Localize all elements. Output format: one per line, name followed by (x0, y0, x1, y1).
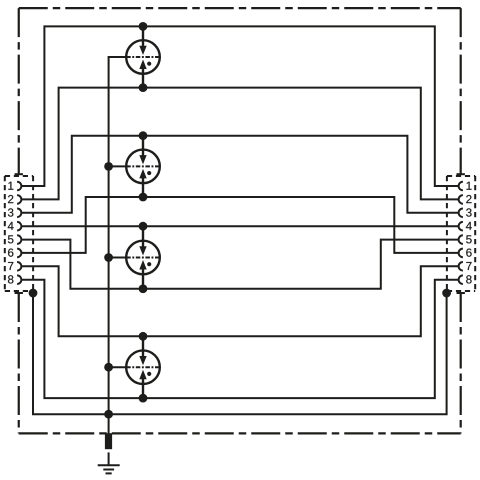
earth feed-through terminal (105, 433, 112, 449)
arrester F2 (gas discharge tube + suppressor) (126, 150, 160, 184)
J1 pin 2 contact (17, 195, 21, 204)
enclosure tick at left connector top (15, 173, 23, 175)
J1 pin 3 label (8, 208, 13, 216)
wire stub F4 top (142, 336, 144, 356)
wire net 3 (J1.3 to J2.3 through arrester F2 top) (22, 136, 458, 213)
enclosure boundary left edge lower segment (18, 293, 20, 433)
enclosure boundary right edge lower segment (460, 293, 462, 433)
wire stub arrester F3 centre to bus (109, 256, 127, 258)
junction F2 top (139, 131, 148, 140)
J2 pin 5 label (466, 235, 472, 243)
junction F2 bottom (139, 193, 148, 202)
junction F4 centre to bus (104, 363, 113, 372)
J2 pin 5 contact (459, 235, 463, 244)
wire net 4 (J1.4 to J2.4 through arrester F3 top) (22, 225, 458, 227)
arrester F1 (gas discharge tube + suppressor) (126, 40, 160, 74)
arrester F4 (gas discharge tube + suppressor) (126, 350, 160, 384)
wire stub F3 top (142, 226, 144, 247)
J1 pin 6 label (8, 249, 13, 257)
junction F4 bottom (139, 394, 148, 403)
wire stub arrester F2 centre to bus (109, 165, 127, 167)
junction F1 bottom (139, 83, 148, 92)
wire net 6 (J1.6 to J2.6 through arrester F2 bottom) (22, 197, 458, 253)
wire net 7 (J1.7 to J2.7 through arrester F4 top) (22, 266, 458, 336)
earth symbol bar 2 (103, 469, 114, 471)
J1 pin 5 label (8, 235, 14, 243)
wire stub F1 bottom (142, 68, 144, 88)
wire net 5 (J1.5 to J2.5 through arrester F3 bottom) (22, 240, 458, 289)
J2 pin 3 contact (459, 209, 463, 218)
J2 pin 6 contact (459, 249, 463, 258)
enclosure tick at right connector top (457, 173, 465, 175)
J2 pin 2 label (466, 195, 471, 203)
wire stub F2 bottom (142, 177, 144, 197)
J2 pin 8 label (466, 275, 471, 283)
J1 pin 4 label (8, 222, 14, 230)
junction F3 bottom (139, 284, 148, 293)
J2 pin 4 label (466, 222, 472, 230)
earth symbol bar 3 (106, 472, 112, 474)
junction J1 shell bond (29, 289, 38, 298)
J2 pin 1 label (467, 182, 472, 190)
wire stub arrester F4 centre to bus (109, 366, 127, 368)
J1 pin 6 contact (17, 249, 21, 258)
J2 pin 7 contact (459, 262, 463, 271)
junction F1 top (139, 22, 148, 31)
arrester F3 (gas discharge tube + suppressor) (126, 241, 160, 275)
connector J2 right box (447, 176, 475, 291)
wire earth bus (109, 57, 127, 435)
wire stub F3 bottom (142, 268, 144, 289)
connector J1 left box (5, 176, 33, 291)
J1 pin 8 label (8, 275, 13, 283)
J1 pin 8 contact (17, 275, 21, 284)
J2 pin 8 contact (459, 275, 463, 284)
enclosure boundary top edge (19, 7, 461, 9)
wire net 8 (J1.8 to J2.8 through arrester F4 bottom) (22, 280, 458, 398)
J1 pin 2 label (8, 195, 13, 203)
wire net 2 (J1.2 to J2.2 through arrester F1 bottom) (22, 88, 458, 200)
junction bus to shield wire (104, 410, 113, 419)
J1 pin 4 contact (17, 222, 21, 231)
wire stub F1 top (142, 26, 144, 46)
junction F2 centre to bus (104, 162, 113, 171)
junction J2 shell bond (442, 289, 451, 298)
J1 pin 7 contact (17, 262, 21, 271)
wire net 1 (J1.1 to J2.1 through arrester F1 top) (22, 26, 458, 186)
wire stub F4 bottom (142, 378, 144, 398)
enclosure boundary bottom edge (19, 432, 461, 434)
J1 pin 1 contact (17, 182, 21, 191)
J1 pin 1 label (8, 182, 13, 190)
enclosure tick at right connector bottom (457, 292, 465, 294)
junction F4 top (139, 332, 148, 341)
earth symbol stem (108, 452, 110, 465)
enclosure boundary right edge upper segment (460, 8, 462, 174)
J2 pin 1 contact (459, 182, 463, 191)
J2 pin 3 label (466, 208, 472, 216)
wire stub F2 top (142, 136, 144, 156)
J1 pin 5 contact (17, 235, 21, 244)
J2 pin 2 contact (459, 195, 463, 204)
earth symbol bar 1 (98, 464, 120, 466)
enclosure tick at left connector bottom (15, 292, 23, 294)
J2 pin 6 label (466, 249, 471, 257)
J2 pin 4 contact (459, 222, 463, 231)
J1 pin 3 contact (17, 209, 21, 218)
J1 pin 7 label (8, 262, 13, 270)
junction F3 top (139, 222, 148, 231)
junction F3 centre to bus (104, 253, 113, 262)
enclosure boundary left edge upper segment (18, 8, 20, 174)
J2 pin 7 label (466, 262, 471, 270)
wire shield bond J1 shell to J2 shell and earth bus (33, 293, 447, 414)
